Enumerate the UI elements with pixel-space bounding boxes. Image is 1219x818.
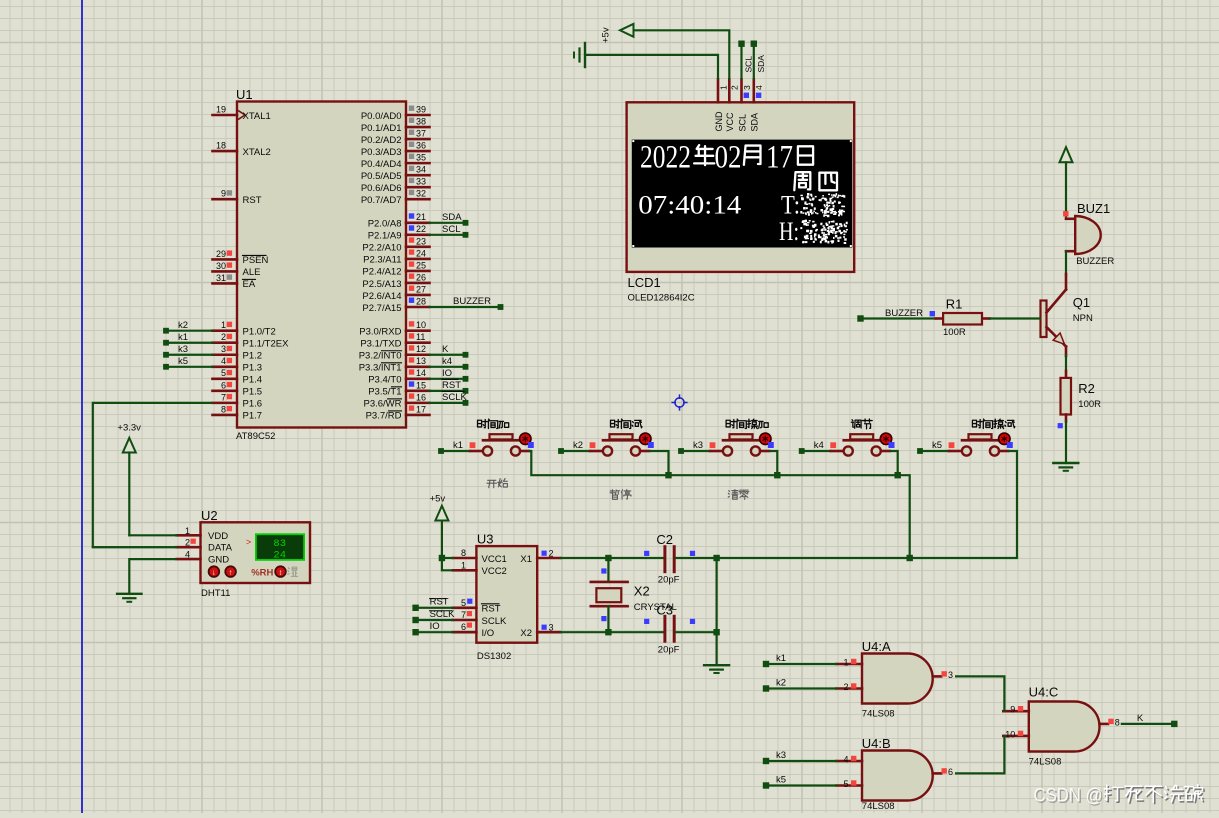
- svg-text:07:40:14: 07:40:14: [638, 190, 741, 220]
- svg-text:22: 22: [416, 224, 426, 234]
- svg-text:P2.3/A11: P2.3/A11: [363, 255, 401, 266]
- svg-text:X1: X1: [520, 554, 532, 565]
- svg-text:31: 31: [216, 273, 226, 283]
- svg-text:U3: U3: [477, 532, 494, 547]
- svg-text:k2: k2: [178, 320, 188, 331]
- svg-text:2: 2: [549, 549, 554, 559]
- svg-text:VCC: VCC: [725, 112, 735, 132]
- svg-text:U2: U2: [201, 508, 218, 523]
- svg-text:DATA: DATA: [208, 543, 233, 554]
- svg-text:9: 9: [221, 189, 226, 199]
- svg-text:1: 1: [461, 560, 466, 570]
- svg-text:+5v: +5v: [601, 27, 612, 43]
- svg-text:1: 1: [221, 320, 226, 330]
- svg-text:29: 29: [216, 249, 226, 259]
- svg-text:19: 19: [216, 104, 226, 114]
- svg-text:H:: H:: [779, 216, 799, 246]
- svg-text:U4:A: U4:A: [862, 639, 891, 654]
- svg-text:U1: U1: [236, 87, 253, 102]
- svg-text:3: 3: [221, 344, 226, 354]
- svg-text:>: >: [246, 537, 251, 547]
- svg-text:38: 38: [416, 116, 426, 126]
- svg-text:5: 5: [221, 368, 226, 378]
- svg-text:P1.4: P1.4: [243, 375, 263, 386]
- svg-text:C2: C2: [656, 532, 673, 547]
- svg-text:k4: k4: [442, 356, 452, 367]
- svg-text:X2: X2: [634, 584, 650, 599]
- svg-text:3: 3: [549, 623, 554, 633]
- svg-text:2022: 2022: [640, 140, 691, 176]
- svg-text:4: 4: [221, 356, 226, 366]
- svg-text:6: 6: [221, 380, 226, 390]
- svg-text:C3: C3: [656, 603, 673, 618]
- svg-text:k1: k1: [178, 332, 188, 343]
- svg-text:P0.5/AD5: P0.5/AD5: [361, 171, 402, 182]
- svg-text:k4: k4: [814, 440, 824, 451]
- svg-text:P3.5/T1: P3.5/T1: [368, 387, 401, 398]
- svg-text:XTAL2: XTAL2: [243, 147, 271, 158]
- svg-text:%RH: %RH: [251, 568, 273, 579]
- svg-text:14: 14: [416, 368, 426, 378]
- svg-text:ALE: ALE: [243, 267, 261, 278]
- svg-text:P0.0/AD0: P0.0/AD0: [361, 111, 402, 122]
- svg-text:k1: k1: [776, 653, 786, 664]
- svg-text:P3.3/INT1: P3.3/INT1: [359, 363, 402, 374]
- svg-text:BUZZER: BUZZER: [885, 308, 923, 319]
- svg-text:34: 34: [416, 165, 426, 175]
- svg-text:P0.6/AD6: P0.6/AD6: [361, 183, 402, 194]
- svg-text:3: 3: [948, 670, 953, 680]
- svg-text:SDA: SDA: [750, 113, 760, 132]
- svg-text:P3.0/RXD: P3.0/RXD: [359, 327, 401, 338]
- svg-text:VCC2: VCC2: [482, 566, 507, 577]
- svg-text:NPN: NPN: [1073, 313, 1093, 324]
- svg-text:P0.1/AD1: P0.1/AD1: [361, 123, 402, 134]
- svg-text:39: 39: [416, 104, 426, 114]
- svg-text:+3.3v: +3.3v: [117, 423, 141, 434]
- svg-text:SCLK: SCLK: [482, 616, 507, 627]
- svg-text:74LS08: 74LS08: [862, 801, 895, 812]
- svg-text:SCL: SCL: [442, 224, 460, 235]
- svg-text:12: 12: [416, 344, 426, 354]
- svg-text:02: 02: [715, 140, 742, 176]
- svg-text:P3.6/WR: P3.6/WR: [363, 399, 401, 410]
- svg-text:↕: ↕: [279, 567, 283, 576]
- svg-text:4: 4: [754, 85, 764, 90]
- svg-text:20pF: 20pF: [658, 645, 680, 656]
- svg-text:BUZZER: BUZZER: [453, 296, 491, 307]
- svg-text:T:: T:: [781, 190, 800, 220]
- svg-text:1: 1: [718, 85, 728, 90]
- svg-text:BUZZER: BUZZER: [1076, 256, 1114, 267]
- svg-text:9: 9: [1010, 705, 1015, 715]
- svg-text:k2: k2: [573, 440, 583, 451]
- svg-text:32: 32: [416, 189, 426, 199]
- svg-text:AT89C52: AT89C52: [236, 431, 275, 442]
- svg-text:P1.0/T2: P1.0/T2: [243, 327, 276, 338]
- svg-text:35: 35: [416, 153, 426, 163]
- svg-text:P1.3: P1.3: [243, 363, 263, 374]
- svg-text:8: 8: [221, 404, 226, 414]
- svg-text:k5: k5: [776, 775, 786, 786]
- svg-text:2: 2: [730, 85, 740, 90]
- svg-text:X2: X2: [520, 628, 532, 639]
- svg-text:U4:C: U4:C: [1029, 685, 1059, 700]
- svg-text:SDA: SDA: [756, 55, 766, 73]
- svg-text:8: 8: [1115, 717, 1120, 727]
- svg-text:28: 28: [416, 296, 426, 306]
- svg-text:17: 17: [416, 404, 426, 414]
- svg-text:1: 1: [843, 658, 848, 668]
- svg-text:6: 6: [948, 767, 953, 777]
- svg-text:VCC1: VCC1: [482, 554, 507, 565]
- svg-text:↑: ↑: [229, 567, 233, 576]
- svg-text:k3: k3: [178, 344, 188, 355]
- svg-text:23: 23: [416, 236, 426, 246]
- svg-text:I/O: I/O: [482, 628, 495, 639]
- svg-text:P1.6: P1.6: [243, 399, 263, 410]
- svg-text:10: 10: [1005, 729, 1015, 739]
- svg-text:OLED12864I2C: OLED12864I2C: [628, 293, 695, 304]
- svg-text:PSEN: PSEN: [243, 255, 269, 266]
- svg-text:P2.5/A13: P2.5/A13: [362, 279, 401, 290]
- svg-text:BUZ1: BUZ1: [1077, 201, 1110, 216]
- svg-text:4: 4: [185, 550, 190, 560]
- svg-text:7: 7: [221, 392, 226, 402]
- svg-text:24: 24: [416, 248, 426, 258]
- svg-text:U4:B: U4:B: [862, 736, 891, 751]
- svg-text:DHT11: DHT11: [201, 588, 230, 599]
- svg-text:P2.6/A14: P2.6/A14: [362, 291, 401, 302]
- svg-text:P0.4/AD4: P0.4/AD4: [361, 159, 402, 170]
- svg-text:R1: R1: [946, 297, 963, 312]
- svg-text:k5: k5: [932, 440, 942, 451]
- svg-text:SDA: SDA: [442, 212, 462, 223]
- svg-text:P2.1/A9: P2.1/A9: [368, 231, 402, 242]
- svg-text:P2.7/A15: P2.7/A15: [362, 303, 401, 314]
- svg-text:XTAL1: XTAL1: [243, 111, 271, 122]
- svg-text:5: 5: [843, 779, 848, 789]
- svg-text:IO: IO: [430, 621, 440, 632]
- svg-text:SCLK: SCLK: [442, 392, 467, 403]
- svg-text:6: 6: [461, 622, 466, 632]
- svg-text:33: 33: [416, 177, 426, 187]
- svg-text:13: 13: [416, 356, 426, 366]
- svg-text:P0.7/AD7: P0.7/AD7: [361, 195, 402, 206]
- svg-text:P3.1/TXD: P3.1/TXD: [360, 339, 401, 350]
- svg-text:SCL: SCL: [737, 114, 747, 132]
- svg-text:k3: k3: [776, 750, 786, 761]
- svg-text:CSDN @: CSDN @: [1034, 785, 1103, 807]
- svg-text:RST: RST: [442, 380, 461, 391]
- svg-text:20pF: 20pF: [658, 575, 680, 586]
- svg-text:2: 2: [843, 682, 848, 692]
- svg-text:P1.1/T2EX: P1.1/T2EX: [243, 339, 290, 350]
- svg-text:27: 27: [416, 284, 426, 294]
- svg-text:10: 10: [416, 320, 426, 330]
- svg-text:GND: GND: [208, 555, 229, 566]
- svg-text:100R: 100R: [1078, 399, 1101, 410]
- svg-text:25: 25: [416, 260, 426, 270]
- svg-text:P2.4/A12: P2.4/A12: [362, 267, 401, 278]
- svg-text:P2.0/A8: P2.0/A8: [368, 219, 402, 230]
- svg-text:15: 15: [416, 380, 426, 390]
- svg-text:5: 5: [461, 598, 466, 608]
- svg-text:P1.2: P1.2: [243, 351, 263, 362]
- svg-text:+5v: +5v: [430, 494, 446, 505]
- svg-text:4: 4: [843, 755, 848, 765]
- svg-text:11: 11: [416, 332, 425, 342]
- svg-text:8: 8: [461, 548, 466, 558]
- svg-text:17: 17: [766, 140, 793, 176]
- svg-text:P2.2/A10: P2.2/A10: [362, 243, 401, 254]
- svg-text:P3.4/T0: P3.4/T0: [368, 375, 401, 386]
- svg-text:P1.5: P1.5: [243, 387, 263, 398]
- svg-text:P3.7/RD: P3.7/RD: [366, 411, 402, 422]
- svg-text:36: 36: [416, 140, 426, 150]
- svg-text:k5: k5: [178, 356, 188, 367]
- svg-text:P0.3/AD3: P0.3/AD3: [361, 147, 402, 158]
- svg-text:37: 37: [416, 128, 426, 138]
- svg-text:21: 21: [416, 212, 426, 222]
- svg-text:16: 16: [416, 392, 426, 402]
- svg-text:30: 30: [216, 261, 226, 271]
- svg-text:VDD: VDD: [208, 531, 228, 542]
- svg-text:DS1302: DS1302: [477, 651, 511, 662]
- svg-text:K: K: [1137, 713, 1144, 724]
- svg-text:LCD1: LCD1: [628, 275, 661, 290]
- svg-text:P1.7: P1.7: [243, 411, 263, 422]
- svg-text:7: 7: [461, 610, 466, 620]
- svg-text:2: 2: [221, 332, 226, 342]
- svg-text:↓: ↓: [212, 567, 216, 576]
- svg-text:18: 18: [216, 141, 226, 151]
- svg-text:P3.2/INT0: P3.2/INT0: [359, 351, 402, 362]
- svg-text:74LS08: 74LS08: [862, 709, 895, 720]
- svg-text:24: 24: [273, 550, 286, 562]
- svg-text:2: 2: [185, 538, 190, 548]
- svg-text:RST: RST: [482, 604, 501, 615]
- svg-text:Q1: Q1: [1073, 295, 1090, 310]
- svg-text:EA: EA: [243, 279, 256, 290]
- svg-text:1: 1: [185, 526, 190, 536]
- svg-text:SCL: SCL: [744, 56, 754, 73]
- svg-text:k3: k3: [693, 440, 703, 451]
- svg-text:k1: k1: [453, 440, 463, 451]
- svg-text:P0.2/AD2: P0.2/AD2: [361, 135, 402, 146]
- svg-text:3: 3: [742, 85, 752, 90]
- svg-text:74LS08: 74LS08: [1029, 757, 1062, 768]
- svg-text:26: 26: [416, 272, 426, 282]
- svg-text:R2: R2: [1078, 381, 1095, 396]
- svg-text:IO: IO: [442, 368, 452, 379]
- svg-text:RST: RST: [243, 195, 262, 206]
- svg-text:83: 83: [273, 538, 286, 550]
- svg-text:K: K: [442, 344, 449, 355]
- svg-text:100R: 100R: [943, 327, 966, 338]
- svg-text:GND: GND: [714, 111, 724, 132]
- svg-text:k2: k2: [776, 678, 786, 689]
